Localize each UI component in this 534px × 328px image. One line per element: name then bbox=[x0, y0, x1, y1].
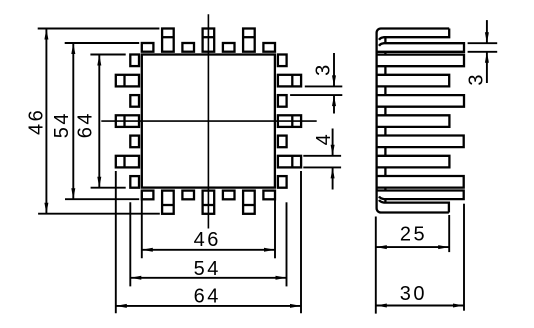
svg-text:46: 46 bbox=[25, 108, 47, 135]
svg-text:3: 3 bbox=[313, 62, 335, 76]
svg-text:54: 54 bbox=[51, 111, 73, 138]
svg-text:25: 25 bbox=[400, 224, 427, 246]
svg-text:54: 54 bbox=[194, 258, 221, 280]
svg-text:4: 4 bbox=[313, 132, 335, 146]
svg-text:64: 64 bbox=[194, 286, 221, 308]
svg-text:46: 46 bbox=[194, 229, 221, 251]
svg-text:30: 30 bbox=[400, 283, 427, 305]
svg-text:64: 64 bbox=[74, 111, 96, 138]
svg-text:3: 3 bbox=[466, 72, 488, 86]
